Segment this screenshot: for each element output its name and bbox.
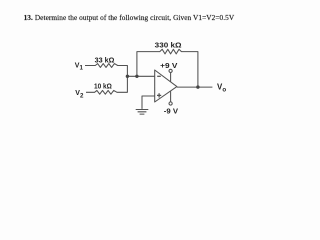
svg-text:o: o (222, 87, 226, 94)
svg-text:1: 1 (80, 65, 84, 72)
svg-text:10 kΩ: 10 kΩ (94, 82, 112, 91)
svg-text:+9 V: +9 V (160, 61, 178, 70)
svg-text:2: 2 (80, 93, 84, 100)
svg-text:330 kΩ: 330 kΩ (155, 41, 182, 50)
svg-text:-9 V: -9 V (164, 107, 179, 116)
svg-text:33 kΩ: 33 kΩ (95, 56, 115, 65)
